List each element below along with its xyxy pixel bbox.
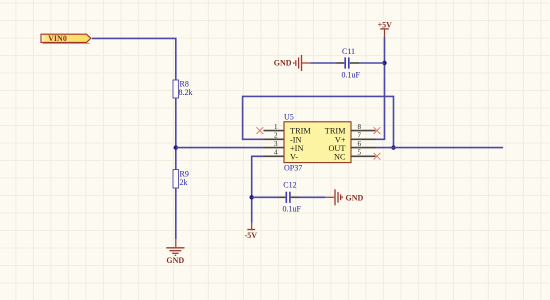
svg-text:GND: GND xyxy=(166,256,184,265)
pin 1 TRIM left xyxy=(264,123,285,131)
resistor R9 xyxy=(173,169,189,188)
ground GND right of C12 xyxy=(325,189,363,205)
wire R9 to ground xyxy=(175,188,177,239)
svg-text:TRIM: TRIM xyxy=(325,127,346,136)
wire VIN0 to R8 xyxy=(92,38,176,80)
power +5V xyxy=(378,20,393,36)
svg-text:C12: C12 xyxy=(283,180,296,189)
svg-text:8: 8 xyxy=(358,123,362,131)
capacitor C11 xyxy=(337,47,361,79)
svg-text:6: 6 xyxy=(358,140,362,148)
pin 8 TRIM right xyxy=(351,123,376,131)
resistor R8 xyxy=(173,80,193,99)
node output junction xyxy=(391,145,395,149)
pin 2 -IN xyxy=(264,132,285,140)
wire V- to -5V xyxy=(252,156,264,222)
power -5V xyxy=(245,223,258,240)
svg-text:V-: V- xyxy=(290,152,298,161)
wire C11 right to rail xyxy=(359,62,385,64)
svg-text:8.2k: 8.2k xyxy=(179,88,193,97)
svg-text:GND: GND xyxy=(274,59,292,68)
svg-text:7: 7 xyxy=(358,132,362,140)
wire junction to +IN xyxy=(176,147,264,149)
no-connect X pin 8 xyxy=(374,127,381,134)
svg-text:OP37: OP37 xyxy=(284,164,302,173)
svg-text:1: 1 xyxy=(274,123,278,131)
svg-text:4: 4 xyxy=(274,149,278,157)
port VIN0 xyxy=(41,34,91,44)
svg-text:0.1uF: 0.1uF xyxy=(283,205,302,214)
wire R8 to R9 xyxy=(175,98,177,170)
svg-text:2k: 2k xyxy=(180,178,188,187)
pin 3 +IN xyxy=(264,140,285,148)
svg-text:U5: U5 xyxy=(284,113,294,122)
node C11 junction xyxy=(382,61,386,65)
ground GND left of C11 xyxy=(274,55,310,71)
svg-text:C11: C11 xyxy=(342,47,355,56)
svg-text:2: 2 xyxy=(274,132,278,140)
wire feedback loop pin2 to output xyxy=(243,96,394,147)
pin 6 OUT xyxy=(351,140,376,148)
capacitor C12 xyxy=(279,180,302,213)
wire junction to C12 xyxy=(252,196,279,198)
svg-text:TRIM: TRIM xyxy=(290,127,311,136)
svg-text:+5V: +5V xyxy=(378,20,393,29)
svg-text:0.1uF: 0.1uF xyxy=(342,71,361,80)
svg-text:GND: GND xyxy=(346,193,364,202)
wire output xyxy=(376,147,504,149)
node junction R8-R9-input xyxy=(174,145,178,149)
node C12 junction xyxy=(250,195,254,199)
op-amp U5 xyxy=(284,113,351,173)
svg-text:VIN0: VIN0 xyxy=(48,34,67,43)
svg-text:NC: NC xyxy=(334,152,346,161)
svg-text:5: 5 xyxy=(358,149,362,157)
wire C11 left to GND xyxy=(310,62,336,64)
wire V+ to +5V rail xyxy=(376,37,385,140)
svg-text:3: 3 xyxy=(274,140,278,148)
ground below R9 xyxy=(166,239,184,264)
svg-text:-5V: -5V xyxy=(245,231,258,240)
pin 5 NC xyxy=(351,149,376,157)
pin 4 V- xyxy=(264,149,285,157)
wire C12 right to GND xyxy=(299,196,325,198)
pin 7 V+ xyxy=(351,132,376,140)
no-connect X pin 5 xyxy=(374,153,381,160)
no-connect X pin 1 xyxy=(256,127,263,134)
